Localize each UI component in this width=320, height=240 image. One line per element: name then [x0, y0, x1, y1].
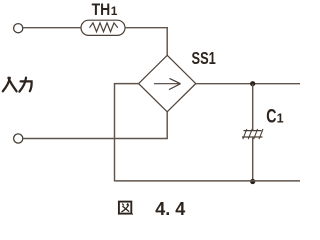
svg-text:SS1: SS1: [192, 48, 217, 68]
wire: bottom rail to right edge: [115, 180, 301, 182]
arrow inside SS1: [154, 78, 181, 89]
capacitor C1 (electrolytic, hatched plate): [242, 129, 263, 139]
svg-text:1: 1: [111, 4, 118, 18]
wire: junction down to C1 top plate: [252, 84, 254, 131]
junction node (top, C1 tap): [250, 81, 255, 86]
caption 図 (figure kanji, drawn): [118, 202, 133, 215]
wire: corner up to SS1 bottom vertex: [166, 112, 168, 139]
wire: SS1 left vertex to left corner: [114, 83, 139, 85]
terminal T1 (top input, open circle): [14, 24, 23, 33]
label input (入力): [3, 78, 32, 92]
label C1: [266, 107, 283, 128]
thermistor TH1 zigzag element: [90, 23, 118, 32]
junction node (bottom rail, C1 tap): [250, 179, 255, 184]
wire: SS1 right vertex to right edge: [196, 83, 300, 85]
wire: TH1 right to top corner: [125, 27, 168, 29]
svg-text:1: 1: [277, 112, 284, 126]
thermistor TH1 (stadium outline): [81, 20, 125, 35]
wire: C1 bottom plate down to bottom junction: [252, 137, 254, 181]
wire: top terminal to TH1 left: [23, 27, 82, 29]
wire: bottom terminal to corner below SS1: [23, 138, 168, 140]
wire: top corner down to SS1 top vertex: [166, 27, 168, 55]
svg-text:C: C: [266, 107, 276, 128]
svg-text:4. 4: 4. 4: [155, 198, 186, 219]
svg-text:TH: TH: [92, 1, 111, 19]
label TH1: [92, 1, 118, 19]
terminal T2 (bottom input, open circle): [14, 134, 23, 143]
wire: left corner down to bottom rail (crosses input wire, no junction): [114, 84, 116, 182]
rectifier SS1 (diamond outline): [139, 55, 196, 112]
